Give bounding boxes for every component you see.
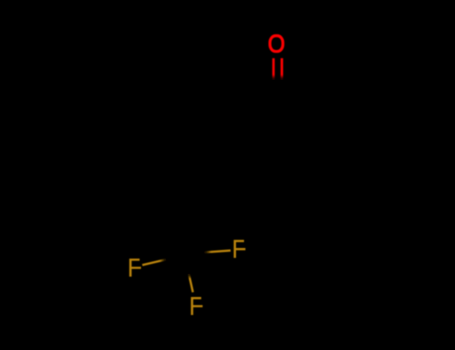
bond C*-F2 olive half	[205, 251, 231, 253]
ring bond C2-C3 (black, invisible)	[324, 125, 326, 179]
double bond C=O, red half, right line	[281, 58, 284, 79]
bond C*-F3 black half (invisible)	[185, 255, 189, 274]
ring bond C5-C6 (black, invisible)	[228, 125, 230, 179]
bond ring C5 to CF3 carbon (black, invisible)	[185, 179, 230, 255]
ring bond C6-C1 (black, invisible)	[230, 101, 278, 125]
ring bond C1-C2 (black, invisible)	[278, 101, 325, 125]
atom O (carbonyl oxygen label)	[270, 36, 283, 52]
carbonyl carbon C1 node (invisible)	[277, 100, 279, 102]
bond C*-F2 black half (invisible)	[185, 252, 205, 255]
atom F2 label (upper-right fluorine)	[234, 240, 246, 258]
CF3 carbon node C* (invisible)	[184, 254, 186, 256]
bond C*-F1 olive half	[142, 260, 165, 266]
double bond C=O, black half (carbon side, invisible on black)	[274, 79, 282, 99]
double bond C=O, red half, left line	[272, 58, 274, 79]
atom F3 label (bottom fluorine)	[191, 297, 203, 315]
ring bond C3-C4 (black, invisible)	[278, 179, 325, 203]
bond C*-F1 black half (invisible)	[166, 255, 185, 260]
ring bond C4-C5 (black, invisible)	[230, 179, 278, 203]
bond C*-F3 olive half	[189, 274, 193, 292]
atom F1 label (left fluorine)	[129, 259, 141, 277]
